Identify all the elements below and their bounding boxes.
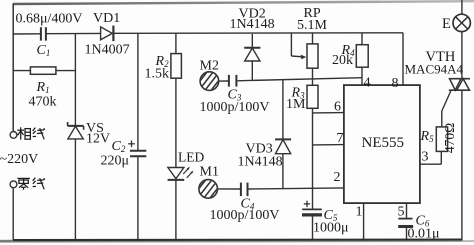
- svg-text:470k: 470k: [29, 95, 57, 110]
- wire top border phase line: [13, 1, 474, 4]
- wire neutral drop: [12, 188, 14, 241]
- resistor R4: [356, 33, 368, 85]
- wire C2 to bottom: [137, 156, 139, 240]
- wire top rail: [13, 33, 403, 34]
- wire R5 gate: [442, 91, 451, 127]
- svg-text:MAC94A4: MAC94A4: [405, 62, 464, 77]
- svg-text:5: 5: [398, 204, 405, 219]
- svg-text:C2: C2: [112, 139, 126, 154]
- wire VS branch: [74, 34, 76, 126]
- wire bottom neutral rail: [0, 240, 474, 242]
- svg-text:3: 3: [422, 150, 429, 165]
- triac VTH: [449, 79, 470, 91]
- wire pin7: [313, 144, 344, 146]
- lamp E: [453, 0, 470, 78]
- wire R2 branch: [175, 34, 177, 54]
- wire LED to bottom: [175, 180, 177, 240]
- svg-text:2: 2: [334, 170, 341, 185]
- svg-text:C1: C1: [37, 43, 51, 58]
- diode VD3: [275, 80, 291, 189]
- svg-text:M1: M1: [200, 165, 219, 180]
- svg-text:R1: R1: [36, 80, 50, 95]
- capacitor C2: [128, 141, 146, 157]
- resistor R2: [171, 54, 182, 79]
- svg-text:1.5k: 1.5k: [145, 66, 170, 81]
- svg-text:1N4148: 1N4148: [230, 17, 275, 32]
- svg-text:7: 7: [337, 131, 344, 146]
- svg-text:1M: 1M: [286, 97, 306, 112]
- svg-text:1N4148: 1N4148: [238, 155, 283, 170]
- capacitor C4: [241, 183, 248, 197]
- svg-text:R5: R5: [420, 129, 435, 144]
- svg-text:220μ: 220μ: [101, 154, 130, 169]
- svg-text:4: 4: [364, 76, 371, 91]
- wire pin3 to R5: [420, 151, 441, 164]
- svg-text:0.68μ/400V: 0.68μ/400V: [16, 12, 83, 27]
- svg-text:LED: LED: [178, 150, 204, 165]
- IC NE555: [344, 85, 420, 203]
- microphone M1: [192, 171, 240, 205]
- wire R2 to LED: [175, 78, 177, 167]
- wire pin6: [313, 112, 344, 114]
- svg-text:VD1: VD1: [93, 11, 120, 26]
- zener VS: [68, 122, 84, 139]
- node 相线 phase terminal: [10, 127, 45, 139]
- microphone M2: [194, 64, 229, 98]
- svg-text:NE555: NE555: [362, 135, 405, 151]
- svg-text:5.1M: 5.1M: [297, 18, 328, 33]
- wire pin1 ground: [363, 203, 365, 240]
- wire trigger pin2: [249, 188, 344, 189]
- svg-text:1000μ: 1000μ: [313, 221, 349, 236]
- svg-text:1N4007: 1N4007: [85, 43, 130, 58]
- wire left phase drop: [12, 4, 14, 132]
- svg-text:~220V: ~220V: [0, 152, 38, 167]
- wire pin8: [402, 33, 404, 85]
- diode VD2: [244, 34, 260, 81]
- svg-text:12V: 12V: [86, 132, 110, 147]
- wire pin5: [406, 203, 408, 218]
- svg-text:20k: 20k: [332, 53, 353, 68]
- svg-text:470Ω: 470Ω: [442, 123, 457, 153]
- capacitor C5: [302, 201, 322, 240]
- node 零线 neutral terminal: [10, 178, 45, 190]
- svg-text:1: 1: [356, 205, 363, 220]
- capacitor C6: [398, 219, 413, 239]
- svg-text:M2: M2: [200, 59, 219, 74]
- wire control bus: [237, 78, 362, 81]
- wire VS to bottom: [74, 139, 76, 241]
- resistor R1: [13, 67, 75, 74]
- resistor R3: [307, 85, 318, 209]
- capacitor C1: [41, 27, 46, 40]
- wire triac to bottom: [461, 90, 463, 241]
- svg-text:8: 8: [392, 76, 399, 91]
- svg-text:1000p/100V: 1000p/100V: [200, 100, 270, 115]
- svg-text:1000p/100V: 1000p/100V: [210, 208, 280, 223]
- resistor R5: [436, 127, 447, 151]
- LED: [168, 167, 194, 180]
- svg-text:6: 6: [334, 100, 341, 115]
- wire C2 branch: [137, 34, 139, 151]
- potentiometer RP: [291, 33, 318, 85]
- diode VD1: [101, 26, 114, 41]
- svg-text:E: E: [442, 16, 451, 32]
- capacitor C3: [229, 75, 237, 87]
